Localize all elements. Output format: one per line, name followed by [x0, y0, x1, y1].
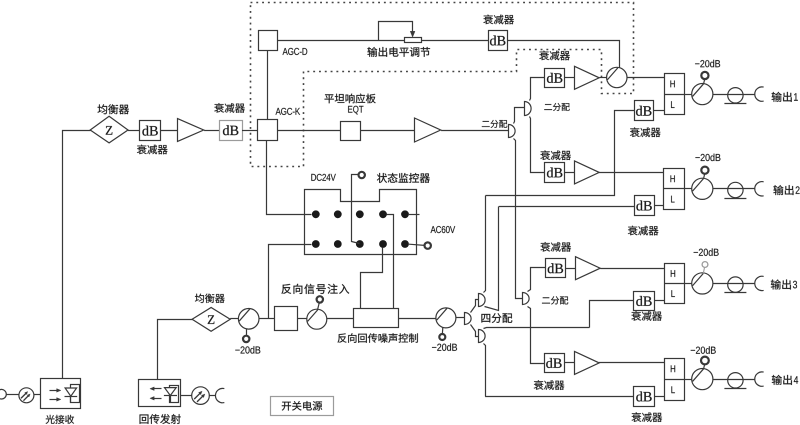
label 回传发射: [140, 414, 181, 424]
wire C2 to output3 reverse: [484, 328, 590, 329]
wire DC2 to noise control U7: [327, 318, 354, 320]
label -20dB (DC1): [235, 346, 260, 353]
attenuator AT1f: [545, 69, 565, 88]
reverse module U6: [275, 307, 298, 331]
label 反向信号注入: [281, 284, 349, 294]
wire J2 to port J9: [209, 395, 215, 397]
wire output3 reverse: [590, 301, 634, 328]
wire A3 to mixer MX1: [600, 77, 607, 79]
label 衰减器 (AT2f): [540, 150, 571, 160]
wire coupler to port (output1): [713, 94, 755, 96]
attenuator AT4f: [545, 354, 565, 373]
AGC-D module U4: [259, 31, 278, 51]
amplifier A4: [575, 161, 600, 184]
label 衰减器 (AT1f): [539, 51, 570, 61]
photodiode D1: [65, 385, 80, 403]
amplifier A2: [415, 118, 441, 142]
label 衰减器 (AT3): [483, 15, 514, 25]
wire U8 to connector J2: [181, 395, 192, 397]
label AC60V: [431, 226, 456, 233]
two-way splitter SP3: [523, 293, 530, 305]
high/low diplexer HL1: [664, 74, 685, 115]
optical connector J1: [19, 388, 41, 403]
label AGC-D: [283, 48, 308, 55]
wire AT1f to amplifier A3: [565, 77, 575, 79]
label 衰减器 (AT2): [214, 103, 245, 113]
label 光接收: [46, 415, 74, 424]
wire A1 to AT2: [204, 130, 219, 132]
wire C0 to C1: [471, 300, 479, 313]
two-way splitter SP1: [509, 125, 516, 138]
label 输出4: [772, 375, 798, 385]
combiner C2: [479, 330, 486, 343]
isolator FL2: [724, 182, 746, 198]
amplifier A3: [575, 66, 600, 89]
wire EQT to amplifier A2: [360, 130, 415, 132]
isolator FL3: [724, 277, 746, 293]
two-way splitter SP2: [525, 102, 532, 116]
label 二分配 (SP2): [544, 103, 569, 111]
wire AT2 to AGC-K: [242, 130, 258, 132]
wire HL2 to coupler: [685, 188, 692, 190]
output coupler DC7: [692, 369, 713, 390]
label 二分配 (SP1): [482, 120, 507, 128]
monitor terminal dots: [312, 210, 409, 248]
DC24V terminal T1: [352, 172, 365, 244]
DC4 -20dB terminal: [701, 72, 708, 84]
AGC-K module U2: [258, 120, 278, 141]
wire AT3r to L port: [654, 300, 664, 302]
DC7 -20dB terminal: [701, 357, 709, 369]
label -20dB (DC3): [432, 343, 457, 350]
wire EQ2 to coupler DC1: [230, 318, 238, 320]
label 衰减器 (AT3r): [631, 311, 662, 321]
DC3 -20dB terminal: [439, 327, 445, 340]
test coupler DC3: [436, 308, 456, 328]
wire SP3 to output3 chain: [528, 268, 546, 292]
label 衰减器 (AT3f): [540, 242, 571, 252]
wire A4 to H port (output2): [599, 172, 664, 174]
laser diode D2: [164, 386, 179, 404]
wire C1 to output1 reverse: [484, 196, 486, 293]
return output port J9: [215, 388, 224, 402]
wire AT1r to L port: [654, 110, 664, 112]
label 二分配 (SP3): [542, 296, 568, 304]
wire SP1 down to SP3: [514, 139, 523, 299]
optical receiver U1 box: [41, 379, 81, 409]
wire HL3 to coupler: [685, 283, 692, 285]
pilot mixer MX1: [607, 67, 627, 87]
label -20dB (output2): [695, 154, 720, 161]
wire monitor to noise control (left): [361, 248, 383, 309]
wire EQ2 to return transmitter: [158, 320, 193, 380]
label 输出1: [772, 92, 798, 102]
label 输出3: [771, 279, 797, 289]
return transmitter U8 box: [139, 380, 181, 407]
attenuator AT2f: [545, 163, 565, 183]
attenuator AT3f: [546, 259, 566, 278]
output port J5: [755, 276, 764, 290]
DC6 -20dB terminal (grey): [702, 262, 708, 274]
label 衰减器 (AT4r): [632, 412, 663, 422]
label 反向回传噪声控制: [338, 333, 418, 342]
label 衰减器 (AT1r): [630, 127, 661, 137]
wire AGC-K to monitor: [267, 141, 312, 215]
wire AT3f to amplifier A5: [566, 268, 576, 270]
label 输出2: [773, 185, 799, 195]
wire HL4 to coupler: [685, 379, 692, 381]
AC60V terminal T2: [409, 242, 431, 248]
wire AT4f to amplifier A6: [564, 362, 574, 364]
dotted AGC control region outline: [251, 3, 634, 167]
wire EQ1 to AT1: [128, 130, 139, 132]
attenuator AT2 (grey box): [220, 121, 243, 141]
label 四分配: [481, 313, 512, 323]
output level adjust pot RP1: [379, 22, 422, 43]
wire coupler to port (output3): [713, 283, 755, 285]
wire AT3 to mixer MX1: [508, 41, 620, 68]
wire AGC-K to EQT: [277, 130, 341, 132]
wire SP3 to output4 chain: [528, 307, 545, 364]
wire AT4r to L port: [654, 396, 664, 398]
wire AT2r to L port: [654, 205, 664, 207]
high/low diplexer HL3: [664, 264, 684, 304]
DC5 -20dB terminal: [701, 167, 708, 179]
label -20dB (output4): [691, 346, 716, 353]
wire AT1 to amplifier A1: [161, 130, 178, 132]
wire DC1 to U6: [259, 318, 275, 320]
label EQT: [348, 106, 363, 115]
output port J6: [755, 372, 764, 386]
label 输出电平调节: [367, 47, 430, 57]
wire U6 to injector DC2: [298, 318, 307, 320]
label 衰减器 (AT1): [137, 145, 168, 155]
wire U7 to coupler DC3: [398, 318, 436, 320]
input port J0: [0, 389, 19, 399]
attenuator AT3r: [634, 292, 655, 311]
return transmitter arrows: [150, 387, 162, 400]
DC2 injection terminal: [317, 296, 323, 309]
wire A2 to splitter SP1: [441, 130, 508, 132]
wire output4 reverse: [485, 396, 634, 398]
status monitor U5 box: [305, 190, 417, 255]
DC1 -20dB terminal: [243, 329, 249, 342]
output coupler DC5: [692, 178, 713, 199]
flat response board EQT U3: [341, 122, 361, 141]
attenuator AT3: [489, 31, 508, 51]
four-way combiner C0: [465, 313, 472, 325]
wire coupler to port (output4): [713, 379, 755, 381]
wire output1 reverse: [486, 111, 635, 196]
label DC24V: [311, 174, 335, 181]
wire coupler to port (output2): [713, 188, 755, 190]
label 状态监控器: [377, 173, 430, 183]
reverse noise control U7 box: [354, 309, 399, 328]
optical connector J2: [192, 387, 210, 405]
combiner C1: [479, 294, 486, 307]
label 均衡器 (EQ1): [98, 104, 129, 114]
wire SP2 to output2 chain: [530, 117, 545, 173]
output port J4: [755, 182, 764, 196]
monitor pin stub: [408, 214, 420, 216]
label 衰减器 (AT4f): [534, 380, 565, 390]
output port J3: [755, 87, 764, 101]
attenuator AT1: [140, 121, 161, 141]
wire SP2 to output1 chain: [530, 78, 545, 101]
equalizer EQ2 diamond: [192, 308, 230, 332]
wire AT2f to amplifier A4: [565, 172, 574, 174]
amplifier A1: [178, 119, 204, 142]
wire AGC-D to AGC-K: [267, 50, 269, 119]
amplifier A5: [576, 257, 601, 280]
isolator FL1: [724, 88, 746, 104]
wire C1 to output2 reverse: [485, 207, 499, 311]
wire DC3 to combiner C0: [456, 317, 464, 319]
attenuator AT1r: [635, 101, 654, 121]
output coupler DC6: [692, 273, 713, 294]
equalizer EQ1 diamond: [90, 116, 128, 143]
attenuator AT4r: [634, 387, 655, 407]
optical receiver arrows: [50, 389, 61, 402]
output coupler DC4: [692, 84, 713, 105]
wire C2 to output4 reverse: [484, 344, 486, 397]
label AGC-K: [276, 108, 301, 115]
wire C0 to C2: [471, 325, 479, 337]
label -20dB (output3): [694, 248, 719, 255]
wire pot to AT3: [421, 40, 488, 42]
label 均衡器 (EQ2): [195, 294, 225, 303]
wire output2 reverse: [499, 206, 635, 208]
amplifier A6: [575, 351, 600, 374]
test coupler DC1: [238, 309, 259, 330]
high/low diplexer HL2: [664, 169, 685, 210]
wire HL1 to coupler: [684, 94, 692, 96]
wire reverse row to monitor: [269, 245, 312, 319]
wire SP1 to SP2: [514, 108, 525, 124]
wire MX1 to H port (output1): [627, 77, 664, 79]
wire monitor to noise control (right): [387, 215, 394, 309]
injection coupler DC2: [307, 309, 327, 329]
label -20dB (output1): [695, 60, 720, 67]
label 衰减器 (AT2r): [628, 226, 659, 236]
wire receiver to equalizer: [63, 131, 91, 379]
attenuator AT2r: [635, 196, 655, 216]
label 平坦响应板: [325, 94, 376, 104]
switching power supply U9: [271, 397, 334, 416]
wire AGC-D to level pot: [278, 40, 404, 42]
wire A6 to H port (output4): [599, 362, 664, 364]
isolator FL4: [724, 373, 746, 389]
wire A5 to H port (output3): [600, 268, 664, 270]
high/low diplexer HL4: [664, 359, 684, 401]
